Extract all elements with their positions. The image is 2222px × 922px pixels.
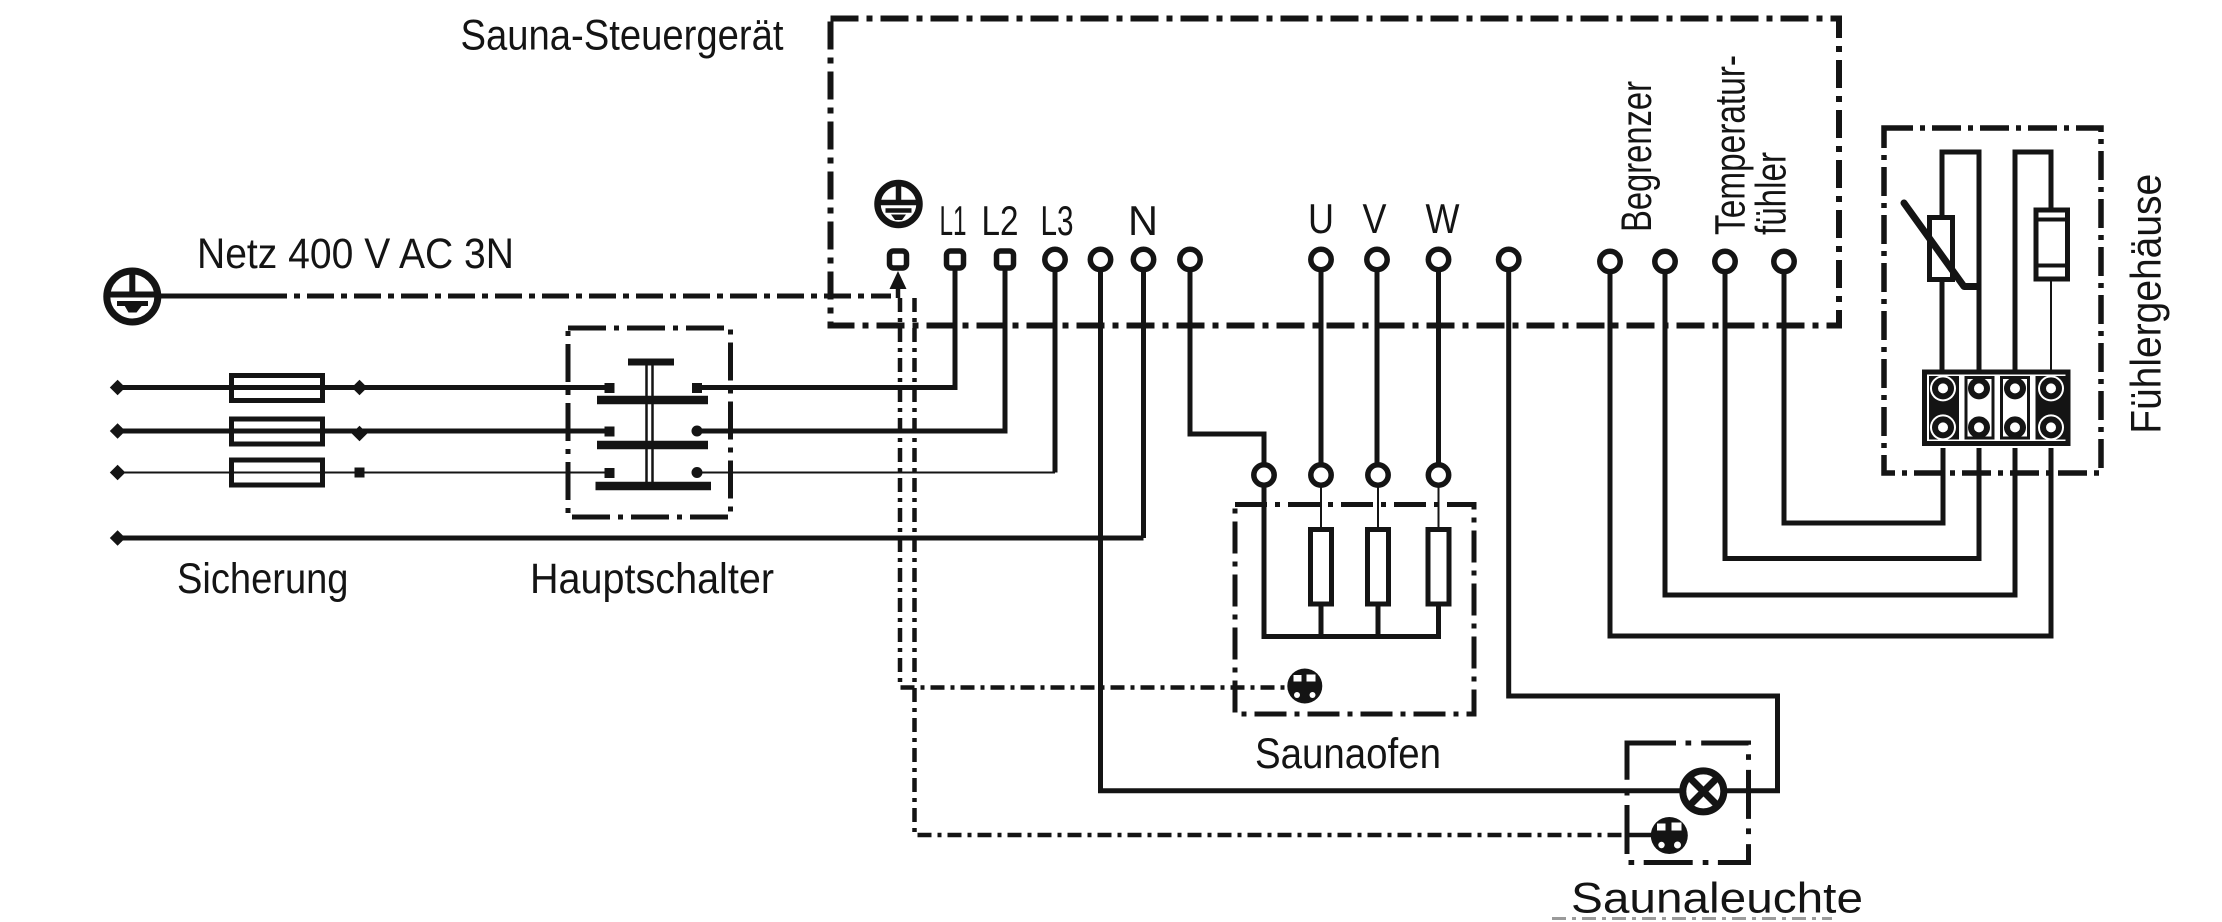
wire: Temperaturfuehler 1 to sensor block col2 <box>1725 269 1979 559</box>
terminal: Temperaturfuehler 2 <box>1774 251 1794 271</box>
wire: limiter loop <box>2015 152 2051 370</box>
wire: L1 feed left segment <box>116 385 229 390</box>
svg-text:Fühlergehäuse: Fühlergehäuse <box>2123 174 2171 434</box>
terminal: N <box>1133 249 1153 269</box>
wire: L3 switch to terminal (thin run) <box>697 269 1055 473</box>
wire: PE distribution to oven (dash-dot) <box>900 298 1291 688</box>
terminal: Begrenzer 2 <box>1655 251 1675 271</box>
lamp (circle with X) <box>1683 771 1724 812</box>
wire: L2 fuse to switch <box>325 429 606 434</box>
fuse F2 <box>229 419 325 444</box>
switch Q1 shaft <box>647 362 653 486</box>
terminal: V <box>1367 249 1387 269</box>
node: junction on L1 <box>352 380 368 396</box>
switch Q1 blade pole 3 <box>596 482 712 491</box>
wire: N up to terminal <box>1141 269 1146 538</box>
sensor block screws column 1 <box>1930 375 1956 440</box>
terminal: W <box>1428 249 1448 269</box>
node: L1 feed left end <box>110 380 126 396</box>
node: L3 feed left end <box>110 465 126 481</box>
terminal: Begrenzer 1 <box>1600 251 1620 271</box>
switch Q1 contacts left <box>605 383 615 478</box>
wire: Begrenzer 2 to sensor block col3 <box>1665 269 2015 595</box>
switch Q1 blade pole 2 <box>597 441 708 450</box>
svg-text:fühler: fühler <box>1748 152 1796 235</box>
terminal: L3 <box>1045 249 1065 269</box>
wire: lamp feed down-right <box>1101 269 1683 791</box>
heating element E3 <box>1428 530 1449 605</box>
main switch enclosure (Hauptschalter box) <box>568 328 731 517</box>
terminal: Temperaturfuehler 1 <box>1715 251 1735 271</box>
svg-text:Sicherung: Sicherung <box>177 555 349 603</box>
wire: earth line from PE symbol (solid then dash-dot) <box>158 294 891 299</box>
svg-text:V: V <box>1363 195 1387 242</box>
sauna oven box (Saunaofen) <box>1235 505 1474 715</box>
svg-text:Netz 400 V AC 3N: Netz 400 V AC 3N <box>197 230 514 278</box>
sauna control unit box (Sauna-Steuergeraet) <box>831 19 1840 326</box>
wire: U to oven <box>1319 269 1324 466</box>
wire: L2 switch to terminal <box>697 269 1005 431</box>
sensor block screws column 2 <box>1971 380 1987 435</box>
wire: N line <box>116 536 1144 541</box>
terminal: lamp feed <box>1090 249 1110 269</box>
heating element E1 <box>1311 530 1332 605</box>
svg-text:N: N <box>1128 197 1158 244</box>
wire: V to oven <box>1375 269 1380 466</box>
sensor terminal block <box>1925 372 2069 444</box>
earth symbol PE (oven) <box>1287 669 1322 704</box>
wire: heater top leads (thin) <box>1321 485 1439 527</box>
svg-text:Hauptschalter: Hauptschalter <box>530 555 774 603</box>
switch Q1 blade pole 1 <box>597 396 708 405</box>
heating element E2 <box>1368 530 1389 605</box>
wire: L1 fuse to switch <box>325 385 606 390</box>
node: junction on L2 <box>352 426 368 442</box>
fuse F3 <box>229 460 325 485</box>
svg-text:Sauna-Steuergerät: Sauna-Steuergerät <box>461 12 784 60</box>
node: L2 feed left end <box>110 423 126 439</box>
switch Q1 actuator T-bar <box>628 359 674 366</box>
wire: W to oven <box>1436 269 1441 466</box>
svg-text:L3: L3 <box>1041 197 1074 244</box>
wire: Temperaturfuehler 2 to sensor block col1 <box>1784 269 1943 523</box>
svg-text:Saunaofen: Saunaofen <box>1255 730 1441 778</box>
thermistor (temperature sensor) <box>1904 203 1978 287</box>
wire: L3 fuse to switch <box>325 472 606 474</box>
fuse F1 <box>229 376 325 401</box>
wire: lamp switch feed right-down <box>1509 269 1778 791</box>
wire: L1 switch to terminal <box>697 269 955 388</box>
limiter sensor <box>2036 210 2068 279</box>
sauna oven terminals <box>1254 465 1449 485</box>
earth arrow into control-unit PE terminal <box>890 271 907 298</box>
sensor block screws column 4 <box>2038 375 2064 440</box>
svg-text:L2: L2 <box>982 197 1019 244</box>
terminal: lamp switch feed <box>1499 249 1519 269</box>
wire: heater bottom leads and bus <box>1262 607 1442 637</box>
svg-text:W: W <box>1426 195 1460 242</box>
svg-text:U: U <box>1308 195 1334 242</box>
terminal: U <box>1311 249 1331 269</box>
node: junction on L3 <box>355 468 365 478</box>
svg-text:Begrenzer: Begrenzer <box>1613 81 1661 232</box>
sensor block screws column 3 <box>2007 380 2023 435</box>
earth symbol PE (inside control unit) <box>878 183 920 225</box>
svg-text:Saunaleuchte: Saunaleuchte <box>1571 874 1863 922</box>
terminal: L2 (square) <box>997 251 1014 268</box>
earth symbol PE (lamp) <box>1651 817 1688 854</box>
terminal: L1 (square) <box>947 251 964 268</box>
wire: L3 feed left segment <box>116 472 229 474</box>
node: N line left end <box>110 530 126 546</box>
terminal: PE (square) <box>890 251 907 268</box>
wire: oven neutral lead <box>1262 485 1267 639</box>
wire: PE distribution to lamp (dash-dot) <box>915 298 1628 835</box>
wire: L2 feed left segment <box>116 429 229 434</box>
earth symbol PE (Netz) <box>107 271 158 322</box>
wire: Begrenzer 1 to sensor block col4 <box>1610 269 2051 636</box>
svg-text:L1: L1 <box>940 197 967 244</box>
grey cropped dash line bottom <box>1552 917 1832 920</box>
sensor housing box (Fuehlergehaeuse) <box>1884 128 2101 473</box>
wire: oven neutral jog <box>1190 269 1264 466</box>
wire: thermistor loop <box>1942 152 1979 370</box>
sauna lamp box (Saunaleuchte) <box>1627 743 1749 863</box>
wire: thermistor bottom lead <box>1940 281 1945 370</box>
switch Q1 contacts right <box>692 383 703 478</box>
terminal: oven neutral <box>1180 249 1200 269</box>
wire: limiter bottom lead (thin) <box>2050 281 2052 370</box>
